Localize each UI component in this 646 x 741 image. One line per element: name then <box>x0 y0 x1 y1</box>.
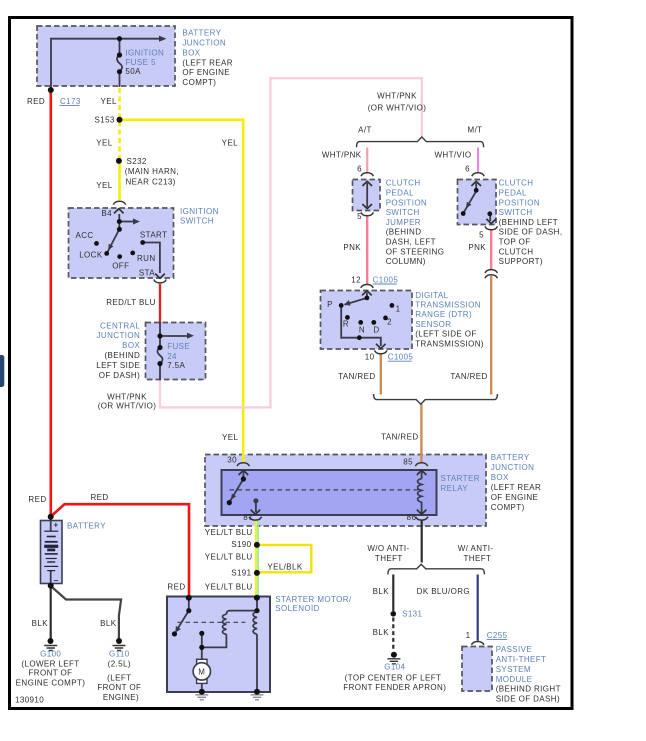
svg-text:OFF: OFF <box>112 261 129 270</box>
svg-text:B4: B4 <box>101 209 112 218</box>
svg-text:JUNCTION: JUNCTION <box>182 39 226 48</box>
svg-text:G100: G100 <box>40 650 61 659</box>
svg-text:M: M <box>198 668 205 677</box>
svg-text:THEFT: THEFT <box>375 554 403 563</box>
svg-text:A/T: A/T <box>358 126 372 135</box>
svg-text:BOX: BOX <box>122 341 140 350</box>
svg-text:JUNCTION: JUNCTION <box>97 331 141 340</box>
svg-text:(TOP CENTER OF LEFT: (TOP CENTER OF LEFT <box>345 674 442 683</box>
svg-text:5: 5 <box>479 231 484 240</box>
svg-text:YEL: YEL <box>222 139 238 148</box>
svg-text:6: 6 <box>465 164 470 173</box>
svg-text:PNK: PNK <box>468 243 486 252</box>
svg-text:130910: 130910 <box>15 696 44 705</box>
svg-text:(BEHIND LEFT: (BEHIND LEFT <box>499 218 558 227</box>
svg-text:G104: G104 <box>384 663 405 672</box>
svg-text:BLK: BLK <box>100 619 117 628</box>
svg-text:STARTER MOTOR/: STARTER MOTOR/ <box>275 595 352 604</box>
svg-text:S190: S190 <box>231 540 251 549</box>
svg-text:SWITCH: SWITCH <box>180 217 214 226</box>
svg-text:FUSE: FUSE <box>167 342 190 351</box>
svg-text:(LEFT: (LEFT <box>107 674 131 683</box>
svg-text:FRONT OF: FRONT OF <box>29 669 73 678</box>
svg-text:POSITION: POSITION <box>386 198 427 207</box>
svg-text:TOP OF: TOP OF <box>499 238 531 247</box>
svg-text:10: 10 <box>365 353 375 362</box>
svg-text:W/ ANTI-: W/ ANTI- <box>458 544 494 553</box>
svg-text:S153: S153 <box>95 116 115 125</box>
svg-text:YEL: YEL <box>96 139 112 148</box>
svg-text:(LEFT SIDE OF: (LEFT SIDE OF <box>415 330 477 339</box>
svg-text:2: 2 <box>387 318 392 327</box>
svg-text:DIGITAL: DIGITAL <box>415 291 448 300</box>
svg-text:JUMPER: JUMPER <box>386 218 421 227</box>
svg-text:W/O ANTI-: W/O ANTI- <box>367 544 409 553</box>
svg-text:TRANSMISSION): TRANSMISSION) <box>415 339 484 348</box>
svg-text:FRONT OF: FRONT OF <box>97 683 141 692</box>
svg-text:BLK: BLK <box>32 619 49 628</box>
svg-text:OF DASH): OF DASH) <box>99 371 140 380</box>
svg-text:1: 1 <box>396 304 401 313</box>
svg-text:C173: C173 <box>60 97 81 106</box>
svg-text:5: 5 <box>357 212 362 221</box>
svg-text:(BEHIND: (BEHIND <box>386 228 422 237</box>
svg-text:TAN/RED: TAN/RED <box>450 372 487 381</box>
svg-text:PNK: PNK <box>343 243 361 252</box>
svg-text:THEFT: THEFT <box>464 554 492 563</box>
svg-text:RED: RED <box>27 97 45 106</box>
svg-text:C1005: C1005 <box>373 275 399 284</box>
svg-text:R: R <box>343 320 349 329</box>
svg-text:SOLENOID: SOLENOID <box>275 604 320 613</box>
svg-text:COLUMN): COLUMN) <box>386 257 426 266</box>
svg-text:BLK: BLK <box>373 587 390 596</box>
svg-text:STA: STA <box>139 269 155 278</box>
svg-text:D: D <box>373 326 379 335</box>
svg-text:SIDE OF DASH): SIDE OF DASH) <box>496 695 560 704</box>
svg-text:(BEHIND RIGHT: (BEHIND RIGHT <box>496 685 561 694</box>
svg-text:YEL/BLK: YEL/BLK <box>267 562 303 571</box>
svg-text:WHT/PNK: WHT/PNK <box>377 92 417 101</box>
svg-text:BOX: BOX <box>491 473 509 482</box>
svg-text:NEAR C213): NEAR C213) <box>126 177 176 186</box>
svg-text:BATTERY: BATTERY <box>67 521 106 530</box>
svg-text:CLUTCH: CLUTCH <box>499 179 534 188</box>
svg-text:SWITCH: SWITCH <box>386 208 420 217</box>
svg-text:BLK: BLK <box>373 628 390 637</box>
svg-text:TAN/RED: TAN/RED <box>338 372 375 381</box>
svg-text:JUNCTION: JUNCTION <box>491 463 535 472</box>
svg-text:86: 86 <box>407 513 417 522</box>
svg-text:(OR WHT/VIO): (OR WHT/VIO) <box>368 104 427 113</box>
svg-text:OF ENGINE: OF ENGINE <box>491 493 539 502</box>
svg-text:BATTERY: BATTERY <box>182 29 221 38</box>
svg-text:BOX: BOX <box>182 48 200 57</box>
svg-text:ENGINE COMPT): ENGINE COMPT) <box>16 679 86 688</box>
svg-text:85: 85 <box>403 457 413 466</box>
svg-text:(BEHIND: (BEHIND <box>104 351 140 360</box>
svg-text:S232: S232 <box>127 157 147 166</box>
svg-text:(LOWER LEFT: (LOWER LEFT <box>21 660 79 669</box>
svg-text:(LEFT REAR: (LEFT REAR <box>491 483 542 492</box>
svg-text:LOCK: LOCK <box>79 251 103 260</box>
svg-text:WHT/PNK: WHT/PNK <box>107 392 147 401</box>
svg-text:START: START <box>140 231 167 240</box>
svg-text:POSITION: POSITION <box>499 198 540 207</box>
svg-text:YEL: YEL <box>222 433 238 442</box>
svg-text:(LEFT REAR: (LEFT REAR <box>182 58 233 67</box>
svg-text:−: − <box>54 576 59 585</box>
svg-text:COMPT): COMPT) <box>491 503 525 512</box>
svg-text:87: 87 <box>243 513 253 522</box>
svg-text:SWITCH: SWITCH <box>499 208 533 217</box>
svg-text:COMPT): COMPT) <box>182 78 216 87</box>
svg-text:RED: RED <box>167 583 185 592</box>
svg-text:RANGE (DTR): RANGE (DTR) <box>415 310 472 319</box>
svg-text:DASH, LEFT: DASH, LEFT <box>386 238 436 247</box>
svg-text:RED: RED <box>91 493 109 502</box>
svg-text:OF ENGINE: OF ENGINE <box>182 68 230 77</box>
svg-text:+: + <box>54 520 59 529</box>
svg-text:SUPPORT): SUPPORT) <box>499 257 543 266</box>
svg-text:RUN: RUN <box>137 254 156 263</box>
svg-text:OF STEERING: OF STEERING <box>386 247 445 256</box>
svg-text:G110: G110 <box>109 650 130 659</box>
svg-text:WHT/PNK: WHT/PNK <box>322 151 362 160</box>
svg-text:(OR WHT/VIO): (OR WHT/VIO) <box>98 402 157 411</box>
svg-text:IGNITION: IGNITION <box>180 207 219 216</box>
svg-text:12: 12 <box>351 275 361 284</box>
svg-text:SYSTEM: SYSTEM <box>496 665 531 674</box>
svg-text:7.5A: 7.5A <box>167 361 185 370</box>
svg-text:FRONT FENDER APRON): FRONT FENDER APRON) <box>343 683 446 692</box>
svg-text:BATTERY: BATTERY <box>491 453 530 462</box>
svg-text:24: 24 <box>167 352 177 361</box>
svg-text:PEDAL: PEDAL <box>499 189 527 198</box>
svg-text:S191: S191 <box>231 568 251 577</box>
svg-text:SENSOR: SENSOR <box>415 320 451 329</box>
svg-text:WHT/VIO: WHT/VIO <box>434 151 471 160</box>
svg-text:(2.5L): (2.5L) <box>108 660 131 669</box>
svg-text:TAN/RED: TAN/RED <box>381 433 418 442</box>
svg-text:S131: S131 <box>402 610 422 619</box>
svg-text:LEFT SIDE: LEFT SIDE <box>96 361 140 370</box>
svg-text:CENTRAL: CENTRAL <box>100 321 140 330</box>
svg-text:MODULE: MODULE <box>496 675 533 684</box>
svg-text:IGNITION: IGNITION <box>125 48 164 57</box>
svg-text:P: P <box>327 300 333 309</box>
svg-text:1: 1 <box>466 631 471 640</box>
svg-text:ANTI-THEFT: ANTI-THEFT <box>496 655 547 664</box>
svg-text:FUSE 5: FUSE 5 <box>125 58 156 67</box>
svg-text:RED/LT BLU: RED/LT BLU <box>106 298 156 307</box>
svg-text:YEL/LT BLU: YEL/LT BLU <box>205 553 253 562</box>
svg-text:DK BLU/ORG: DK BLU/ORG <box>417 587 470 596</box>
svg-text:6: 6 <box>357 164 362 173</box>
svg-text:30: 30 <box>227 455 237 464</box>
svg-text:PEDAL: PEDAL <box>386 189 414 198</box>
svg-text:STARTER: STARTER <box>441 474 480 483</box>
svg-text:C1005: C1005 <box>388 353 414 362</box>
svg-text:YEL/LT BLU: YEL/LT BLU <box>205 583 253 592</box>
svg-text:YEL/LT BLU: YEL/LT BLU <box>205 528 253 537</box>
svg-text:RELAY: RELAY <box>441 484 469 493</box>
svg-text:TRANSMISSION: TRANSMISSION <box>415 301 481 310</box>
svg-text:PASSIVE: PASSIVE <box>496 645 532 654</box>
svg-text:(MAIN HARN,: (MAIN HARN, <box>125 167 179 176</box>
svg-text:ENGINE): ENGINE) <box>103 693 139 702</box>
svg-text:M/T: M/T <box>468 126 483 135</box>
svg-text:N: N <box>359 326 365 335</box>
svg-text:YEL: YEL <box>101 97 117 106</box>
svg-text:CLUTCH: CLUTCH <box>499 247 534 256</box>
svg-text:C255: C255 <box>487 631 508 640</box>
svg-text:50A: 50A <box>125 67 141 76</box>
svg-text:SIDE OF DASH,: SIDE OF DASH, <box>499 228 563 237</box>
svg-text:ACC: ACC <box>76 231 94 240</box>
svg-text:CLUTCH: CLUTCH <box>386 179 421 188</box>
svg-text:RED: RED <box>28 495 46 504</box>
svg-text:YEL: YEL <box>96 181 112 190</box>
